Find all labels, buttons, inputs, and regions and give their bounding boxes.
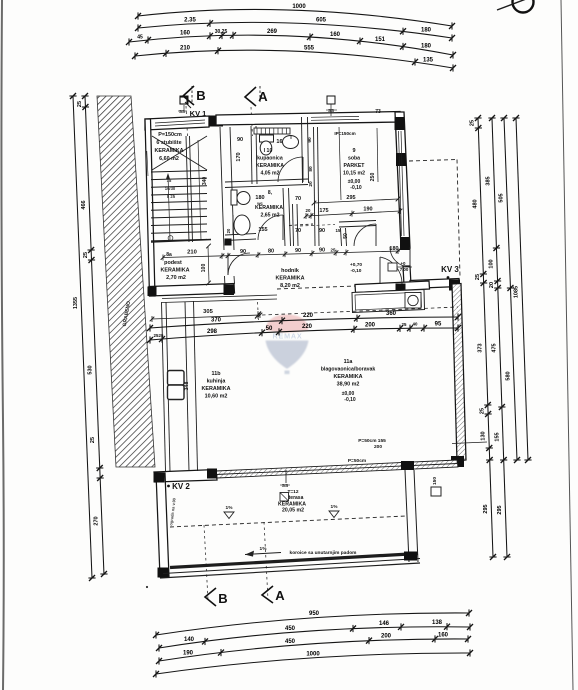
svg-text:180: 180: [389, 246, 398, 252]
door podest-hodnik: [228, 253, 250, 275]
svg-text:170: 170: [236, 152, 242, 161]
staircase break diagonals: [152, 136, 207, 170]
svg-text:8 25: 8 25: [167, 194, 176, 199]
window marker SS top wall mid: [327, 96, 335, 104]
dimension row bottom-2 140/450/146/138: [156, 623, 473, 652]
wc east wall: [283, 188, 285, 246]
dimension row bottom-1 total 950: [153, 609, 472, 638]
section line A mouth dashed: [259, 86, 261, 102]
ventilation flues in west wall: [168, 371, 185, 386]
dim row 305 + dashed continuation: [152, 315, 260, 319]
column terrace south-east: [404, 552, 417, 561]
svg-text:25: 25: [331, 248, 336, 253]
extension line room 9: [339, 127, 341, 200]
kitchen north wall: [355, 281, 430, 293]
south wall of living room (glazed): [216, 460, 458, 478]
svg-text:295: 295: [497, 505, 503, 514]
svg-text:7,00: 7,00: [400, 267, 409, 272]
dimension row top-3 45/160/30,25/269/160/151/180: [126, 32, 456, 59]
watermark balloon bottom (blue): [266, 341, 309, 369]
south-west wall piece of living room: [154, 470, 217, 483]
dimension row bottom-4 total 1000: [153, 649, 473, 677]
door hodnik-living: [380, 257, 402, 284]
shaft east wall: [251, 126, 252, 184]
dim row living 25/298/50/220/200/25/40/95: [147, 324, 461, 343]
svg-text:2.35: 2.35: [184, 18, 196, 24]
scan page left edge: [1, 0, 3, 690]
svg-text:50: 50: [266, 326, 273, 332]
svg-text:25: 25: [480, 408, 486, 414]
kitchen counter: [352, 290, 425, 313]
column top-right corner: [395, 117, 405, 130]
svg-text:90: 90: [319, 248, 325, 254]
svg-text:+0,70: +0,70: [350, 262, 362, 268]
svg-text:1%: 1%: [260, 546, 268, 552]
svg-text:73: 73: [375, 109, 381, 115]
column living south at terrace east: [401, 461, 414, 470]
svg-text:480: 480: [472, 199, 478, 208]
svg-text:130: 130: [480, 431, 486, 440]
svg-text:90: 90: [319, 228, 325, 234]
watermark balloon top (red): [266, 315, 308, 333]
svg-text:90: 90: [237, 137, 243, 143]
svg-text:340: 340: [202, 177, 208, 186]
svg-text:190: 190: [363, 207, 372, 213]
svg-text:138: 138: [432, 620, 443, 626]
svg-text:530: 530: [87, 365, 93, 374]
svg-text:146: 146: [379, 621, 390, 627]
svg-text:605: 605: [316, 18, 327, 24]
section marker A bottom: [262, 586, 273, 603]
svg-text:305: 305: [203, 309, 213, 315]
svg-text:200: 200: [381, 633, 392, 639]
terrace east wall: [405, 470, 409, 562]
svg-text:370: 370: [211, 317, 222, 323]
wc 8 toilet: [231, 190, 237, 205]
svg-text:P=150cm: P=150cm: [158, 132, 182, 138]
stairwell top-left corner column: [145, 119, 151, 130]
column living south mid: [207, 469, 217, 479]
svg-text:160: 160: [330, 32, 341, 38]
section line A dashed mid: [258, 302, 259, 320]
top wall of living-dining east part: [410, 279, 459, 289]
dimension line right-1 25/480/25/373/25/130/25/295: [474, 115, 496, 560]
svg-text:20: 20: [489, 282, 495, 288]
svg-text:hodnik: hodnik: [281, 268, 299, 274]
svg-text:190: 190: [183, 650, 194, 656]
svg-text:20: 20: [306, 208, 311, 213]
svg-text:298: 298: [207, 329, 218, 335]
svg-text:555: 555: [304, 45, 315, 51]
svg-text:PARKET: PARKET: [344, 163, 366, 169]
north symbol diagonal: [497, 0, 534, 10]
terrace inner dashed line: [170, 516, 406, 527]
svg-text:KV 3: KV 3: [441, 265, 459, 274]
svg-text:80: 80: [308, 166, 314, 172]
section line A dashed bottom: [264, 522, 268, 600]
svg-text:950: 950: [309, 611, 320, 617]
podest vertical dim 100: [208, 246, 209, 283]
north symbol circle: [513, 0, 534, 13]
terrace west wall: [156, 473, 169, 577]
closet west wall stub: [341, 228, 342, 246]
svg-text:45: 45: [137, 34, 143, 40]
svg-text:100: 100: [201, 264, 207, 273]
svg-text:4,05 m2: 4,05 m2: [260, 171, 279, 177]
svg-text:soba: soba: [348, 156, 360, 162]
svg-text:151: 151: [375, 37, 386, 43]
svg-text:KERAMIKA: KERAMIKA: [333, 374, 362, 380]
window band room 9 top wall: [311, 115, 359, 118]
stray scan dot: [146, 586, 148, 588]
svg-text:295: 295: [346, 195, 355, 201]
column right wall at hodnik: [400, 237, 410, 250]
svg-text:18: 18: [167, 178, 172, 183]
section line A dashed top: [251, 107, 253, 136]
dimension line right-4 total 1085: [512, 115, 531, 463]
svg-text:8,20 m2: 8,20 m2: [280, 283, 300, 289]
room 9 dim 295: [314, 199, 398, 203]
dimension line left inner 25/466/25/530/25/270: [81, 93, 107, 577]
svg-text:P=50cm 155: P=50cm 155: [358, 438, 386, 444]
svg-text:9: 9: [352, 148, 355, 154]
section line B dashed top: [186, 106, 188, 136]
section line B mouth dashed: [191, 86, 193, 102]
svg-text:terasa: terasa: [289, 495, 304, 501]
svg-text:450: 450: [285, 626, 296, 632]
stair/bath dividing wall: [220, 127, 224, 250]
column terrace south-west: [158, 568, 169, 578]
svg-text:135: 135: [423, 57, 434, 63]
svg-text:155: 155: [494, 432, 500, 441]
room 9 west wall line pair: [314, 127, 316, 246]
svg-text:180: 180: [421, 44, 432, 50]
svg-text:kupaonica: kupaonica: [257, 156, 283, 162]
svg-text:blagovaonica/boravak: blagovaonica/boravak: [321, 367, 376, 373]
svg-text:8,: 8,: [268, 190, 273, 196]
svg-text:16/30: 16/30: [165, 186, 176, 191]
window lines inside east wall: [399, 131, 402, 236]
svg-text:295: 295: [483, 504, 489, 513]
west wall of living room outer line pair: [162, 302, 166, 471]
svg-text:269: 269: [267, 29, 278, 35]
svg-text:250: 250: [370, 173, 376, 182]
dim row 175/190: [306, 211, 400, 216]
column terrace north-west: [155, 473, 165, 483]
column podest south-west: [148, 287, 157, 297]
door wc 8: [258, 215, 283, 240]
svg-text:1000: 1000: [292, 4, 306, 10]
svg-text:25: 25: [83, 252, 89, 258]
east wall of living room: [452, 284, 466, 462]
svg-text:70: 70: [295, 196, 301, 202]
svg-text:1%: 1%: [226, 505, 234, 511]
watermark basket: [285, 371, 290, 375]
svg-text:25: 25: [475, 274, 481, 280]
svg-text:150: 150: [432, 477, 438, 485]
svg-text:200: 200: [365, 322, 376, 328]
svg-text:6,60 m2: 6,60 m2: [159, 156, 179, 162]
closet dashed front: [289, 224, 313, 226]
svg-text:SS: SS: [282, 483, 289, 489]
stairwell top wall: [145, 116, 209, 130]
dim row podest/hodnik 210 90 80 90 90 180: [163, 251, 400, 258]
svg-text:1000: 1000: [306, 651, 320, 657]
svg-text:20,05 m2: 20,05 m2: [282, 508, 304, 514]
KV3 dashed boundary horizontal: [409, 160, 457, 162]
svg-text:6 stubište: 6 stubište: [156, 140, 181, 146]
svg-text:140: 140: [184, 637, 195, 643]
column wc south-west: [225, 239, 232, 246]
svg-text:220: 220: [302, 324, 313, 330]
closet north wall: [339, 221, 376, 223]
column kitchen north wall: [396, 284, 406, 295]
svg-text:KERAMIKA: KERAMIKA: [255, 205, 283, 211]
svg-text:200: 200: [374, 444, 382, 450]
svg-text:360: 360: [386, 311, 397, 317]
svg-text:11b: 11b: [212, 371, 222, 377]
room 9 vertical dim 250: [377, 128, 378, 182]
hodnik south open edge dashed: [277, 286, 355, 289]
svg-text:450: 450: [285, 639, 296, 645]
wc bowl bathroom 10: [260, 135, 274, 142]
dimension line left outer 1355: [69, 93, 95, 581]
window marker SS top wall left: [180, 96, 188, 104]
svg-text:2,70 m2: 2,70 m2: [166, 275, 186, 281]
dimension row top-1 total 1000: [135, 9, 455, 29]
svg-text:2,65 m2: 2,65 m2: [260, 213, 279, 219]
level box at entrance: [388, 263, 397, 271]
svg-text:90: 90: [307, 137, 313, 143]
section marker B bottom: [205, 588, 216, 606]
svg-text:P=50cm: P=50cm: [348, 458, 366, 464]
column podest south-east: [224, 285, 235, 296]
living north-west thin wall lines: [162, 295, 277, 299]
wc south wall: [225, 234, 256, 236]
dimension line right-2 385/100/20/475/155/295: [488, 115, 510, 560]
staircase spine wall: [186, 136, 189, 242]
svg-text:25: 25: [402, 322, 407, 327]
svg-text:30,25: 30,25: [215, 29, 228, 35]
dimension row top-4 210/555/135: [132, 47, 456, 71]
staircase walking line right: [198, 140, 201, 240]
svg-text:I 10: I 10: [264, 148, 273, 154]
slope note bottom: [245, 553, 281, 555]
section marker B top: [183, 86, 194, 105]
svg-text:+0: +0: [400, 261, 406, 266]
svg-text:220: 220: [303, 313, 314, 319]
dimension row top-2 235/605/180: [135, 20, 455, 42]
svg-text:1%: 1%: [331, 504, 339, 510]
svg-text:KERAMIKA: KERAMIKA: [160, 268, 189, 274]
svg-text:koroice sa unutarnjim padom: koroice sa unutarnjim padom: [290, 550, 357, 556]
staircase bottom edge: [151, 240, 211, 243]
svg-text:REMAX: REMAX: [273, 332, 303, 341]
wc 8 washbasin: [234, 215, 250, 235]
svg-text:95: 95: [435, 322, 442, 328]
svg-text:373: 373: [477, 343, 483, 352]
dimension row bottom-3 190/450/200/160: [156, 635, 471, 664]
column living south-west: [154, 473, 164, 483]
column right wall mid: [396, 153, 406, 166]
main top wall: [216, 112, 401, 126]
KV3 dashed boundary vertical: [457, 160, 460, 278]
svg-text:210: 210: [180, 46, 191, 52]
hodnik right wall below door: [403, 266, 411, 285]
svg-text:11a: 11a: [344, 359, 354, 365]
svg-text:kuhinja: kuhinja: [207, 379, 227, 385]
terrace south thick screed line: [170, 554, 418, 568]
svg-text:90: 90: [295, 248, 301, 254]
terrace south edge: [160, 563, 420, 578]
svg-text:KV 2: KV 2: [172, 482, 190, 491]
section marker A top: [245, 87, 256, 106]
entrance door outside: [390, 247, 410, 267]
svg-text:-0,10: -0,10: [350, 185, 362, 191]
closet wall below room 9 west: [293, 204, 294, 246]
svg-text:25: 25: [470, 120, 476, 126]
svg-text:175: 175: [319, 208, 328, 214]
svg-text:KERAMIKA: KERAMIKA: [154, 148, 183, 154]
stair/bath wall below door: [224, 276, 227, 287]
svg-text:466: 466: [81, 200, 87, 209]
svg-text:-0,10: -0,10: [351, 268, 362, 274]
column at east top corner: [449, 280, 460, 291]
svg-text:B: B: [218, 591, 227, 606]
svg-text:160: 160: [180, 31, 191, 37]
svg-text:IP=150cm: IP=150cm: [334, 131, 355, 136]
svg-text:160: 160: [438, 632, 449, 638]
svg-text:348: 348: [184, 382, 190, 391]
dashed niche line: [300, 225, 335, 227]
svg-text:A: A: [275, 588, 285, 603]
svg-text:180: 180: [421, 28, 432, 34]
stairwell west wall: [145, 119, 155, 296]
svg-text:580: 580: [505, 371, 511, 380]
svg-text:10,15 m2: 10,15 m2: [343, 171, 365, 177]
staircase treads: [151, 171, 207, 241]
svg-text:70: 70: [295, 228, 301, 234]
bath/wc dividing wall: [225, 179, 308, 182]
svg-text:20: 20: [226, 228, 231, 233]
section line B dashed bottom: [204, 525, 208, 600]
hatched existing neighbour wall: [97, 96, 155, 467]
podest south wall: [149, 284, 235, 297]
svg-text:25: 25: [159, 333, 164, 338]
column at stair/bath top joint: [209, 116, 223, 127]
svg-text:100: 100: [488, 259, 494, 268]
scan page right edge: [561, 0, 573, 690]
svg-text:15: 15: [336, 228, 341, 233]
svg-text:270: 270: [93, 516, 99, 525]
dimension line right-3 505/580: [500, 115, 520, 463]
svg-text:385: 385: [486, 176, 492, 185]
door bathroom 10: [278, 157, 303, 182]
watermark balloon group: [266, 315, 309, 375]
svg-text:155: 155: [258, 227, 267, 233]
svg-text:20: 20: [308, 181, 314, 187]
svg-text:-0,10: -0,10: [344, 397, 356, 403]
svg-text:1085: 1085: [514, 286, 520, 298]
right wall of room 9 / upper block: [395, 112, 410, 248]
door closet/room9: [354, 224, 376, 246]
svg-text:505: 505: [499, 193, 505, 202]
kitchen sink: [405, 293, 421, 309]
svg-text:25: 25: [77, 101, 83, 107]
svg-text:KV 1: KV 1: [190, 109, 207, 118]
washbasin bathroom 10: [283, 136, 299, 149]
west wall of living room inner line pair: [185, 302, 189, 472]
svg-text:80: 80: [268, 249, 274, 255]
dim row living 370/220/360: [147, 313, 461, 331]
svg-text:210: 210: [187, 250, 197, 256]
svg-text:KERAMIKA: KERAMIKA: [275, 276, 304, 282]
radiator under bath window: [254, 128, 290, 134]
svg-text:38,90 m2: 38,90 m2: [337, 382, 360, 388]
svg-text:90: 90: [240, 249, 246, 255]
svg-text:25: 25: [90, 437, 96, 443]
svg-text:50: 50: [343, 233, 349, 239]
staircase walking line left: [168, 175, 170, 240]
column living room south-east corner: [451, 456, 464, 467]
svg-text:B: B: [196, 88, 205, 103]
svg-text:475: 475: [491, 343, 497, 352]
svg-text:1355: 1355: [73, 297, 79, 309]
svg-text:10,60 m2: 10,60 m2: [205, 394, 228, 400]
svg-text:KERAMIKA: KERAMIKA: [256, 163, 284, 169]
svg-text:KERAMIKA: KERAMIKA: [201, 386, 230, 392]
bathroom east wall: [302, 117, 303, 183]
svg-text:podest: podest: [164, 260, 182, 266]
leader to drain marker: [452, 442, 487, 444]
svg-text:40: 40: [413, 322, 418, 327]
